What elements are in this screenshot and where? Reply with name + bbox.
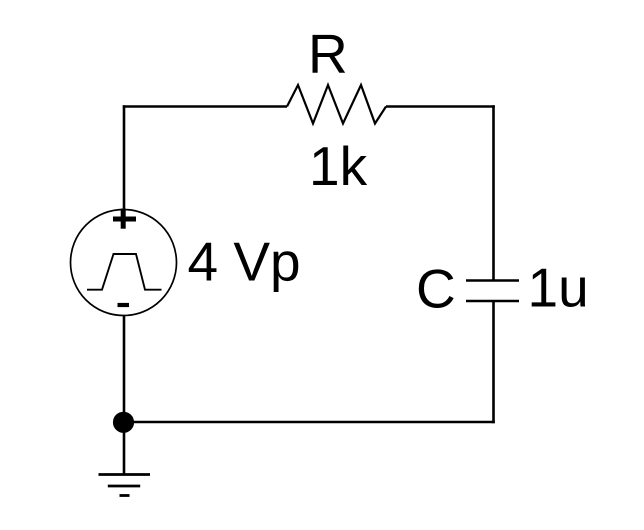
wire source bottom to node [123,316,126,423]
wire top-right horizontal segment [386,105,495,108]
pulse waveform symbol [87,254,162,290]
resistor R [287,85,386,124]
wire right vertical upper (to capacitor) [492,105,495,280]
node junction dot [113,412,134,433]
wire top-left horizontal segment [123,105,287,108]
wire node to ground [123,432,126,475]
wire left vertical (top corner to source +) [123,105,126,210]
svg-text:C: C [416,258,456,320]
svg-text:1k: 1k [309,135,368,197]
svg-text:R: R [308,23,348,85]
svg-text:4 Vp: 4 Vp [188,231,301,293]
minus marking [118,303,130,307]
ground symbol [99,475,151,496]
wire right vertical lower (capacitor to bottom) [492,301,495,423]
svg-text:1u: 1u [528,257,589,319]
capacitor C [466,281,519,302]
wire bottom horizontal [124,421,495,424]
plus marking [113,209,136,229]
voltage source V1 (pulse source, circle) [71,209,177,316]
